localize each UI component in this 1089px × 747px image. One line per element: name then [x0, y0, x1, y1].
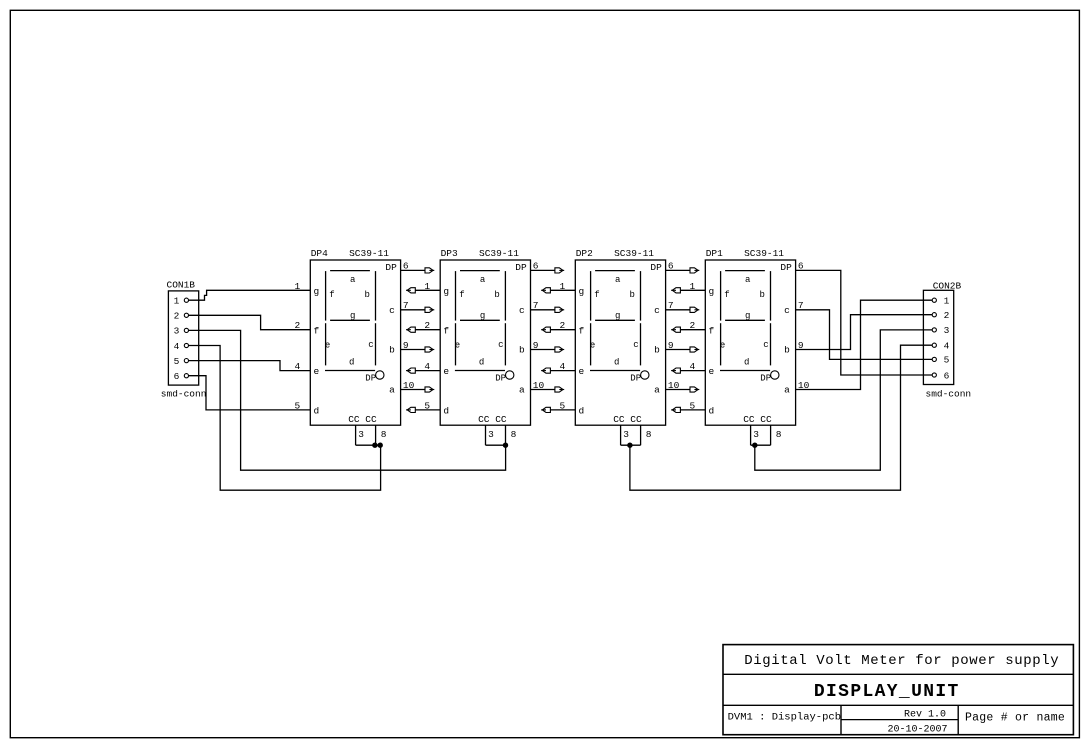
svg-text:f: f	[314, 325, 320, 336]
net arrow from DP4 pin 6	[401, 261, 435, 273]
svg-text:d: d	[479, 358, 484, 368]
net arrow into DP2 pin 2	[541, 320, 575, 332]
svg-text:SC39-11: SC39-11	[744, 248, 784, 259]
svg-text:d: d	[744, 358, 749, 368]
svg-text:3: 3	[944, 325, 950, 336]
svg-text:a: a	[745, 275, 751, 285]
svg-text:Page # or name: Page # or name	[965, 712, 1065, 725]
svg-text:10: 10	[668, 380, 680, 391]
svg-text:DP4: DP4	[311, 248, 328, 259]
svg-text:e: e	[579, 366, 585, 377]
svg-text:6: 6	[533, 261, 539, 272]
7-segment display DP3 SC39-11	[440, 248, 530, 445]
svg-text:3: 3	[358, 429, 364, 440]
svg-text:DP: DP	[630, 374, 641, 384]
wire DP1 pin7 c to CON2B-5	[796, 300, 933, 359]
svg-text:6: 6	[668, 261, 674, 272]
svg-text:5: 5	[689, 400, 695, 411]
svg-text:a: a	[519, 384, 525, 395]
net arrow from DP3 pin 9	[531, 340, 565, 352]
svg-text:g: g	[480, 311, 485, 321]
svg-text:2: 2	[294, 320, 300, 331]
svg-text:4: 4	[294, 361, 300, 372]
svg-text:b: b	[629, 290, 634, 300]
svg-text:g: g	[709, 286, 715, 297]
svg-text:5: 5	[559, 400, 565, 411]
svg-text:5: 5	[294, 400, 300, 411]
svg-text:7: 7	[668, 300, 674, 311]
net arrow into DP1 pin 2	[671, 320, 705, 332]
svg-text:10: 10	[533, 380, 545, 391]
net arrow into DP2 pin 5	[541, 400, 575, 412]
svg-text:e: e	[720, 340, 725, 350]
svg-text:g: g	[314, 286, 320, 297]
svg-text:b: b	[494, 290, 499, 300]
net arrow from DP2 pin 9	[666, 340, 700, 352]
svg-text:d: d	[443, 406, 449, 417]
svg-text:DP2: DP2	[576, 248, 593, 259]
svg-text:6: 6	[403, 261, 409, 272]
svg-text:Rev 1.0: Rev 1.0	[904, 710, 946, 721]
svg-text:1: 1	[944, 296, 950, 307]
svg-text:b: b	[389, 344, 395, 355]
svg-text:d: d	[314, 406, 320, 417]
svg-text:a: a	[389, 384, 395, 395]
svg-text:6: 6	[174, 371, 180, 382]
svg-text:5: 5	[174, 356, 180, 367]
svg-text:2: 2	[559, 320, 565, 331]
svg-text:c: c	[498, 340, 503, 350]
svg-text:f: f	[709, 325, 715, 336]
svg-text:e: e	[709, 366, 715, 377]
net arrow from DP3 pin 7	[531, 300, 565, 312]
net arrow into DP2 pin 4	[541, 361, 575, 373]
wire CON1B-4 to DP4 CC	[189, 346, 381, 491]
svg-text:10: 10	[403, 380, 415, 391]
svg-text:3: 3	[174, 326, 180, 337]
DP3 CC net junction	[486, 443, 508, 447]
svg-text:DISPLAY_UNIT: DISPLAY_UNIT	[814, 682, 960, 702]
svg-text:b: b	[654, 344, 660, 355]
7-segment display DP2 SC39-11	[575, 248, 665, 445]
svg-text:g: g	[615, 311, 620, 321]
svg-text:g: g	[443, 286, 449, 297]
svg-text:10: 10	[798, 380, 810, 391]
svg-text:f: f	[459, 290, 464, 300]
svg-text:4: 4	[174, 341, 180, 352]
svg-text:c: c	[784, 305, 790, 316]
net arrow into DP3 pin 2	[406, 320, 440, 332]
7-segment display DP1 SC39-11	[705, 248, 795, 445]
svg-text:b: b	[784, 344, 790, 355]
svg-text:d: d	[349, 358, 354, 368]
svg-text:2: 2	[689, 320, 695, 331]
svg-text:DP: DP	[760, 374, 771, 384]
net arrow from DP4 pin 10	[401, 380, 435, 392]
svg-text:CC CC: CC CC	[348, 414, 377, 425]
svg-text:b: b	[759, 290, 764, 300]
svg-text:d: d	[709, 406, 715, 417]
title block	[723, 645, 1073, 736]
svg-text:8: 8	[646, 429, 652, 440]
svg-text:f: f	[579, 325, 585, 336]
wire DP1 pin6 DP to CON2B-6	[796, 261, 933, 375]
svg-text:7: 7	[798, 300, 804, 311]
net arrow from DP4 pin 7	[401, 300, 435, 312]
svg-text:f: f	[443, 325, 449, 336]
wire CON1B-3 to DP3 CC	[189, 330, 506, 470]
svg-text:4: 4	[559, 361, 565, 372]
svg-text:1: 1	[174, 296, 180, 307]
svg-text:e: e	[314, 366, 320, 377]
connector CON1B	[161, 280, 207, 400]
7-segment display DP4 SC39-11	[310, 248, 400, 445]
wire CON1B-6 to DP4 pin5 d	[189, 376, 311, 412]
svg-text:CC CC: CC CC	[613, 414, 642, 425]
net arrow into DP3 pin 5	[406, 400, 440, 412]
DP4 CC net junction	[356, 443, 383, 447]
svg-text:6: 6	[944, 370, 950, 381]
svg-text:DP: DP	[780, 262, 792, 273]
svg-text:d: d	[614, 358, 619, 368]
wire DP1 pin10 a to CON2B-1	[796, 300, 933, 391]
net arrow into DP3 pin 4	[406, 361, 440, 373]
net arrow from DP4 pin 9	[401, 340, 435, 352]
wire CON1B-1 to DP4 pin1 g	[189, 281, 311, 300]
svg-text:DP3: DP3	[441, 248, 458, 259]
svg-text:smd-conn: smd-conn	[161, 388, 207, 399]
svg-text:CC CC: CC CC	[743, 414, 772, 425]
svg-text:3: 3	[488, 429, 494, 440]
net arrow from DP3 pin 6	[531, 261, 565, 273]
svg-text:CC CC: CC CC	[478, 414, 507, 425]
wire CON1B-2 to DP4 pin2 f	[189, 315, 311, 331]
svg-text:SC39-11: SC39-11	[614, 248, 654, 259]
svg-text:b: b	[519, 344, 525, 355]
svg-text:a: a	[615, 275, 621, 285]
net arrow into DP2 pin 1	[541, 281, 575, 293]
svg-text:DP: DP	[650, 262, 662, 273]
svg-text:DP: DP	[385, 262, 397, 273]
svg-text:a: a	[654, 384, 660, 395]
svg-text:e: e	[325, 340, 330, 350]
svg-text:8: 8	[381, 429, 387, 440]
net arrow from DP3 pin 10	[531, 380, 565, 392]
svg-text:8: 8	[511, 429, 517, 440]
svg-text:SC39-11: SC39-11	[479, 248, 519, 259]
svg-text:e: e	[443, 366, 449, 377]
svg-text:c: c	[654, 305, 660, 316]
svg-text:c: c	[368, 340, 373, 350]
svg-text:b: b	[364, 290, 369, 300]
svg-text:9: 9	[668, 340, 674, 351]
wire CON1B-5 to DP4 pin4 e	[189, 361, 311, 373]
svg-text:5: 5	[944, 355, 950, 366]
svg-text:f: f	[724, 290, 729, 300]
svg-text:DP: DP	[515, 262, 527, 273]
svg-text:DVM1 : Display-pcb: DVM1 : Display-pcb	[728, 712, 841, 724]
net arrow from DP2 pin 10	[666, 380, 700, 392]
DP2 CC net junction and wire to CON2B-4	[621, 345, 933, 490]
svg-text:g: g	[579, 286, 585, 297]
net arrow into DP1 pin 1	[671, 281, 705, 293]
svg-text:9: 9	[533, 340, 539, 351]
svg-text:a: a	[350, 275, 356, 285]
svg-text:4: 4	[689, 361, 695, 372]
svg-text:smd-conn: smd-conn	[926, 388, 972, 399]
svg-text:a: a	[784, 384, 790, 395]
svg-text:2: 2	[424, 320, 430, 331]
svg-text:c: c	[389, 305, 395, 316]
net arrow into DP3 pin 1	[406, 281, 440, 293]
svg-text:Digital Volt Meter for power s: Digital Volt Meter for power supply	[744, 653, 1059, 669]
svg-text:8: 8	[776, 429, 782, 440]
svg-text:7: 7	[533, 300, 539, 311]
svg-text:9: 9	[403, 340, 409, 351]
svg-text:CON1B: CON1B	[167, 280, 196, 291]
svg-text:SC39-11: SC39-11	[349, 248, 389, 259]
svg-text:3: 3	[753, 429, 759, 440]
net arrow into DP1 pin 4	[671, 361, 705, 373]
svg-text:4: 4	[944, 341, 950, 352]
net arrow into DP1 pin 5	[671, 400, 705, 412]
net arrow from DP2 pin 7	[666, 300, 700, 312]
svg-text:c: c	[633, 340, 638, 350]
svg-text:c: c	[763, 340, 768, 350]
svg-text:9: 9	[798, 340, 804, 351]
svg-text:20-10-2007: 20-10-2007	[887, 724, 947, 735]
svg-text:2: 2	[944, 310, 950, 321]
svg-text:5: 5	[424, 400, 430, 411]
svg-text:e: e	[590, 340, 595, 350]
svg-text:DP1: DP1	[706, 248, 723, 259]
svg-text:DP: DP	[495, 374, 506, 384]
svg-text:CON2B: CON2B	[933, 281, 962, 292]
svg-text:1: 1	[689, 281, 695, 292]
svg-text:1: 1	[294, 281, 300, 292]
svg-text:6: 6	[798, 261, 804, 272]
svg-text:7: 7	[403, 300, 409, 311]
net arrow from DP2 pin 6	[666, 261, 700, 273]
svg-text:f: f	[594, 290, 599, 300]
svg-text:g: g	[350, 311, 355, 321]
svg-text:a: a	[480, 275, 486, 285]
svg-text:e: e	[455, 340, 460, 350]
svg-text:d: d	[579, 406, 585, 417]
svg-text:c: c	[519, 305, 525, 316]
svg-text:f: f	[329, 290, 334, 300]
svg-text:1: 1	[559, 281, 565, 292]
svg-text:1: 1	[424, 281, 430, 292]
svg-text:2: 2	[174, 311, 180, 322]
svg-text:g: g	[745, 311, 750, 321]
DP1 CC net junction and wire to CON2B-3	[751, 330, 933, 470]
svg-text:3: 3	[623, 429, 629, 440]
svg-text:DP: DP	[365, 374, 376, 384]
connector CON2B	[923, 281, 971, 400]
wire DP1 pin9 b to CON2B-2	[796, 315, 933, 351]
svg-text:4: 4	[424, 361, 430, 372]
